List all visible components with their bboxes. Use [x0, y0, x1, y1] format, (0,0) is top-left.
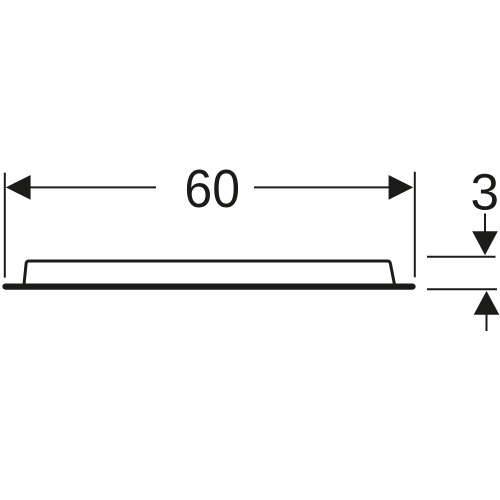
svg-text:60: 60 [184, 160, 240, 219]
svg-text:3: 3 [471, 164, 500, 221]
